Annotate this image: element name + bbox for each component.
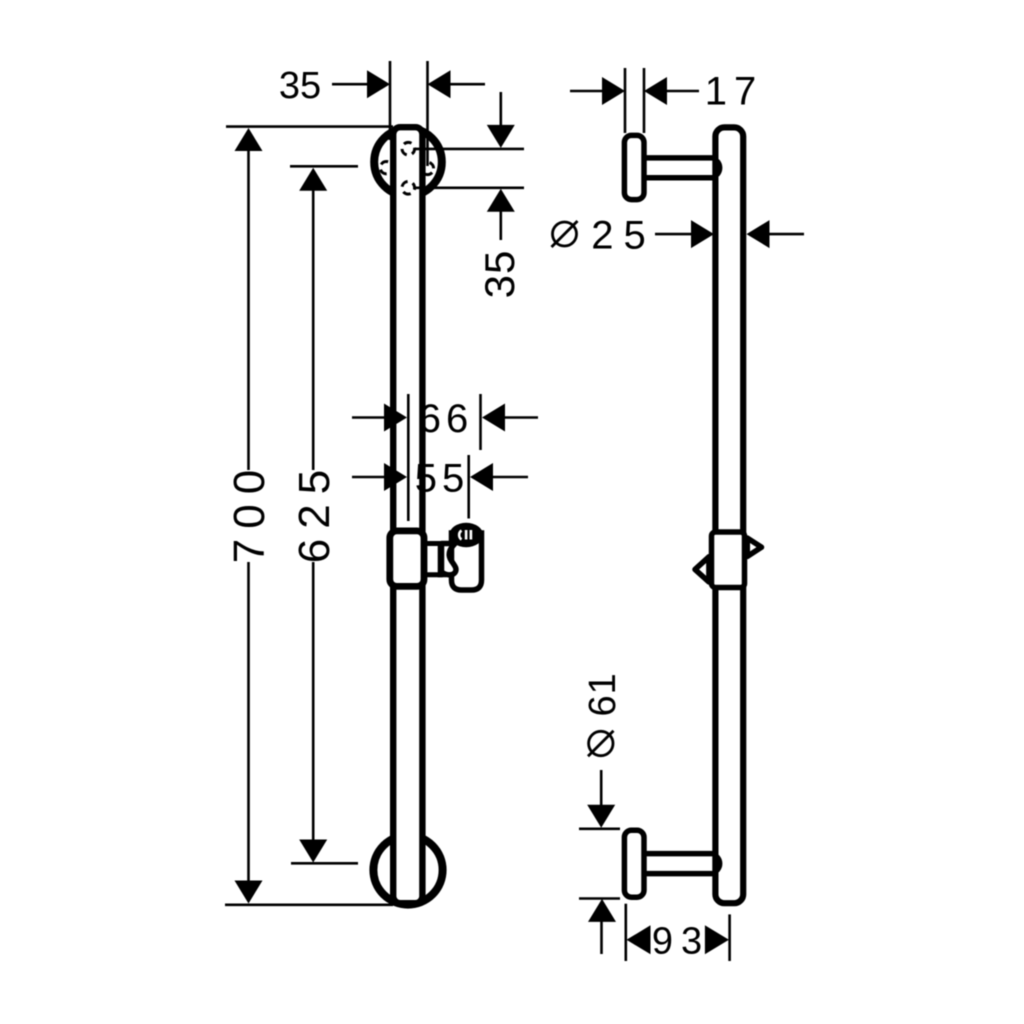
dim Ø61: upper stem: [600, 770, 603, 807]
dim 35 top: left-pointing arrow: [428, 70, 451, 98]
screw hole W (dashed): [380, 162, 392, 174]
dim 66: right-pointing arrow: [384, 404, 407, 432]
top arm lower line: [644, 175, 714, 181]
dim Ø61: up arrow: [588, 899, 616, 922]
bottom arm lower line: [644, 871, 714, 877]
dim 66: left tail: [352, 416, 385, 419]
dim 35 top: tail line right: [450, 83, 485, 86]
dim 625: up arrow: [299, 168, 327, 191]
slider left wedge: [695, 557, 709, 582]
dim 35 top: extension line right: [426, 61, 429, 166]
bottom escutcheon circle: [373, 835, 442, 904]
dim Ø25: left-pointing arrow: [747, 220, 770, 248]
dim 93: right-pointing arrow: [705, 925, 729, 954]
dim 625: down arrow: [299, 840, 327, 863]
svg-text:25: 25: [591, 213, 656, 257]
dim 700: up arrow: [235, 128, 263, 151]
dim 93: right extension line: [728, 914, 731, 961]
handgrip ring slot crescent (white): [459, 531, 461, 540]
dim Ø25: right-pointing arrow: [691, 220, 714, 248]
dim Ø61: diameter symbol (rotated position): [589, 731, 613, 755]
dim 66: right extension line: [479, 394, 482, 450]
dim 35 vertical: down arrow: [487, 125, 515, 148]
dim 35 vertical: bottom stem: [499, 211, 502, 240]
dim Ø25: left tail: [655, 233, 692, 236]
bottom arm end bump: [713, 853, 723, 875]
holder connector top line: [424, 541, 456, 546]
dim 17: left tail: [570, 90, 604, 93]
dim 66: left-pointing arrow: [482, 404, 505, 432]
dim 35 vertical: up arrow: [487, 189, 515, 212]
bottom arm upper line: [644, 851, 714, 857]
top wall plate (side): [624, 135, 644, 199]
dim 66: left extension line (bar axis): [407, 394, 410, 521]
dim 700: upper stem: [247, 150, 250, 470]
dim 55: right tail: [492, 476, 528, 479]
dim Ø61: top tick line: [579, 827, 620, 830]
dim 55: right extension line: [467, 455, 470, 519]
dim 17: right-pointing arrow: [602, 77, 625, 105]
svg-text:93: 93: [652, 921, 710, 963]
slider (side view): [712, 532, 745, 588]
dim 93: left extension line: [624, 904, 627, 961]
screw hole S (dashed): [402, 182, 415, 195]
dim Ø61: down arrow: [587, 805, 615, 828]
screw hole E (dashed): [421, 162, 433, 174]
dim 700: lower stem: [247, 562, 250, 882]
dim 93: left-pointing arrow: [627, 925, 651, 954]
handgrip top ring (black): [449, 523, 483, 547]
svg-text:625: 625: [290, 460, 339, 563]
svg-text:55: 55: [415, 457, 470, 501]
svg-text:66: 66: [419, 397, 474, 441]
dim Ø25: diameter symbol: [553, 222, 577, 246]
dim 55: right-pointing arrow: [384, 463, 407, 491]
dim 17: extension line left: [624, 68, 627, 133]
svg-text:17: 17: [705, 70, 764, 114]
dim 625: upper stem: [312, 190, 315, 470]
dim 55: left-pointing arrow: [470, 463, 493, 491]
dim 35 vertical: line B: [415, 187, 524, 190]
holder cup edge line: [438, 541, 443, 577]
dim 55: left tail: [352, 476, 385, 479]
dim 35 top: tail line left: [332, 83, 368, 86]
dim 625: top reference line: [290, 165, 358, 168]
wall bar body (side view): [715, 127, 743, 903]
dim Ø61: bottom tick line: [579, 897, 620, 900]
svg-text:35: 35: [279, 65, 321, 107]
dim 35 (vertical right of circle): line A: [415, 148, 524, 151]
slider right wedge: [747, 538, 761, 556]
dim 35 top: extension line left: [389, 61, 392, 140]
dim 17: right tail: [666, 90, 699, 93]
top escutcheon circle: [374, 128, 442, 196]
top arm upper line: [644, 155, 714, 161]
screw hole N (dashed): [402, 142, 415, 155]
top arm end bump: [713, 157, 723, 179]
holder nose: [442, 544, 457, 575]
dim 17: left-pointing arrow: [644, 77, 667, 105]
dim 700: top reference line: [226, 125, 393, 128]
dim 66: right tail: [504, 416, 538, 419]
dim 35 top: right-pointing arrow: [367, 70, 390, 98]
wall bar body (front view): [393, 127, 422, 903]
handgrip cylinder body: [452, 533, 482, 590]
dim 625: bottom reference line: [291, 862, 358, 865]
dim Ø61: lower stem: [600, 921, 603, 954]
svg-text:61: 61: [582, 672, 624, 716]
dim 17: extension line right: [643, 68, 646, 133]
handgrip ring slot bars (white): [465, 530, 468, 540]
svg-text:700: 700: [225, 460, 274, 563]
dim 35 vertical: top stem: [499, 92, 502, 127]
holder connector bottom line: [424, 572, 446, 577]
dim 700: bottom reference line: [225, 903, 393, 906]
dim 625: lower stem: [312, 562, 315, 842]
svg-text:35: 35: [476, 250, 523, 299]
slider bracket (front view): [390, 531, 424, 587]
bottom wall plate (side): [624, 830, 644, 897]
dim 700: down arrow: [235, 881, 263, 904]
dim Ø25: right tail: [769, 233, 804, 236]
